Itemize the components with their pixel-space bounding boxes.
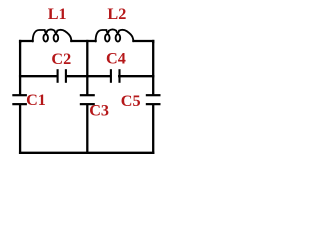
wire top rail left segment with corner <box>20 41 32 42</box>
svg-text:C2: C2 <box>51 50 71 68</box>
inductor L1 <box>33 29 72 41</box>
capacitor C4 <box>111 69 120 83</box>
svg-text:L1: L1 <box>48 5 67 23</box>
wire top rail right segment with corner <box>133 41 153 42</box>
svg-text:C1: C1 <box>26 91 46 109</box>
wire right vertical lower <box>152 105 154 153</box>
wire middle rail right segment <box>119 75 153 77</box>
wire bottom rail <box>20 152 153 154</box>
wire right vertical upper <box>152 41 154 94</box>
wire left vertical lower <box>19 105 21 153</box>
capacitor C2 <box>58 69 66 83</box>
wire top rail middle segment <box>71 40 95 42</box>
wire middle rail left segment <box>20 75 57 77</box>
svg-text:C3: C3 <box>89 102 109 120</box>
svg-text:C4: C4 <box>106 50 126 68</box>
svg-text:L2: L2 <box>107 5 126 23</box>
svg-text:C5: C5 <box>121 92 141 110</box>
wire left vertical upper <box>19 41 21 94</box>
capacitor C5 <box>146 95 161 104</box>
wire middle rail center segment <box>66 75 110 77</box>
wire middle vertical upper <box>86 41 88 94</box>
capacitor C3 <box>80 95 95 104</box>
inductor L2 <box>96 29 134 41</box>
wire middle vertical lower <box>86 105 88 153</box>
capacitor C1 <box>12 95 27 104</box>
